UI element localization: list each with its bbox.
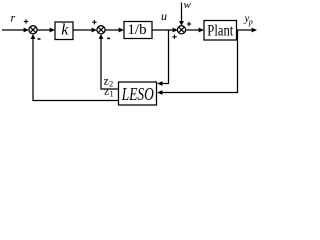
svg-text:w: w [184,0,192,11]
svg-text:k: k [61,22,69,39]
svg-text:Plant: Plant [207,23,233,40]
svg-text:1: 1 [110,89,114,99]
svg-text:1/b: 1/b [128,22,147,38]
svg-text:LESO: LESO [121,84,154,104]
svg-text:u: u [161,9,167,23]
svg-text:2: 2 [109,79,113,89]
svg-text:p: p [248,18,253,27]
svg-text:r: r [11,11,16,25]
